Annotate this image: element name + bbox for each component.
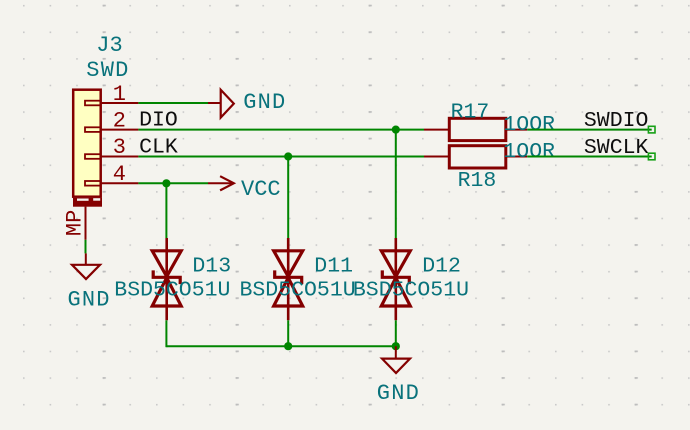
svg-text:SWDIO: SWDIO <box>584 109 649 133</box>
svg-text:R18: R18 <box>458 169 497 193</box>
diode D13 <box>152 238 181 320</box>
svg-text:1OOR: 1OOR <box>503 113 555 137</box>
wire pin1 to GND <box>138 102 208 104</box>
wire bottom rail <box>166 345 395 347</box>
svg-text:1: 1 <box>113 82 126 107</box>
svg-text:SWD: SWD <box>86 58 129 83</box>
svg-text:R17: R17 <box>451 100 490 124</box>
svg-text:GND: GND <box>68 287 111 312</box>
diode D12 <box>381 238 410 320</box>
wire D11 top <box>287 157 289 239</box>
connector J3 pin 4 notch <box>85 181 101 186</box>
junction CLK/D11 <box>284 152 292 160</box>
wire DIO row <box>138 129 424 131</box>
connector J3 pin 2 notch <box>85 127 101 132</box>
wire D11 bottom <box>287 320 289 346</box>
svg-text:GND: GND <box>377 381 420 406</box>
connector J3 pin 1 notch <box>85 101 101 106</box>
svg-text:SWCLK: SWCLK <box>584 136 649 160</box>
pin 2 stub <box>102 129 139 131</box>
svg-text:D11: D11 <box>314 255 353 279</box>
svg-text:D12: D12 <box>422 255 461 279</box>
svg-text:VCC: VCC <box>241 177 281 202</box>
power symbol GND (MP) <box>72 253 100 279</box>
svg-text:4: 4 <box>113 162 126 187</box>
wire CLK row <box>138 156 424 158</box>
svg-text:BSD5CO51U: BSD5CO51U <box>114 278 230 302</box>
junction rail/D12/GND <box>392 342 400 350</box>
svg-text:3: 3 <box>113 135 126 160</box>
junction pin4/D13 <box>162 179 170 187</box>
resistor R17 <box>424 118 527 140</box>
pin 3 stub <box>102 156 139 158</box>
wire pin4 to VCC <box>138 182 208 184</box>
diode D11 <box>274 238 303 320</box>
resistor R18 <box>424 146 527 168</box>
svg-text:J3: J3 <box>96 33 122 58</box>
power symbol GND (pin1) <box>208 90 234 118</box>
connector J3 body <box>73 90 101 197</box>
wire D12 bottom <box>395 320 397 346</box>
power symbol GND (bottom) <box>382 346 410 373</box>
pin 4 stub <box>102 182 139 184</box>
svg-text:GND: GND <box>243 90 286 115</box>
svg-text:MP: MP <box>63 210 88 236</box>
svg-text:2: 2 <box>113 108 126 133</box>
node SWDIO open end <box>648 126 655 133</box>
pin MP stub <box>85 207 87 240</box>
svg-text:1OOR: 1OOR <box>503 140 555 164</box>
wire MP to GND <box>85 240 87 254</box>
svg-text:BSD5CO51U: BSD5CO51U <box>353 278 469 302</box>
connector J3 MP shield tab <box>73 198 102 207</box>
wire D13 top <box>165 183 167 238</box>
junction DIO/D12 <box>392 126 400 134</box>
wire R17 to SWDIO <box>527 129 652 131</box>
connector J3 pin 3 notch <box>85 154 101 159</box>
svg-text:D13: D13 <box>192 255 231 279</box>
pin 1 stub <box>102 102 139 104</box>
junction rail/D11 <box>284 342 292 350</box>
wire D12 top <box>395 130 397 238</box>
node SWCLK open end <box>648 153 655 160</box>
power symbol VCC <box>208 176 234 190</box>
wire R18 to SWCLK <box>527 156 652 158</box>
wire D13 bottom <box>165 320 167 347</box>
svg-text:BSD5CO51U: BSD5CO51U <box>240 278 356 302</box>
